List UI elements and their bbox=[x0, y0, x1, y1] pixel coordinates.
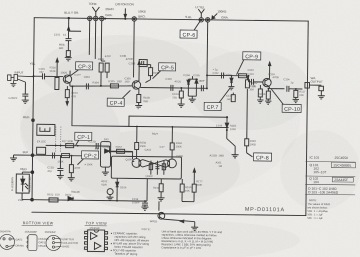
callout CP-1 bbox=[75, 132, 92, 145]
pinout transistor FET bbox=[0, 234, 15, 249]
resistor R126 to ground bbox=[68, 156, 75, 181]
flip-flop box bbox=[111, 156, 181, 179]
relay box bbox=[100, 142, 110, 176]
diode D106 bbox=[228, 76, 234, 90]
resistor R105 bbox=[110, 84, 118, 88]
pinout transistor TO92 bbox=[46, 235, 62, 250]
wire Q3 output run bbox=[140, 87, 206, 90]
node line A end bbox=[226, 116, 228, 118]
resistor R102 with supply arrow bbox=[55, 58, 59, 89]
resistor R152 bbox=[49, 198, 58, 202]
resistor R162 bbox=[170, 127, 174, 150]
ground from BLK bbox=[10, 155, 33, 161]
callout CP-10 bbox=[271, 89, 301, 113]
diode D102 bbox=[68, 197, 73, 201]
callout CP-4 bbox=[107, 90, 130, 107]
notes block left bbox=[110, 231, 149, 256]
resistor R106 / R107 pair bbox=[99, 61, 109, 86]
wire base feed bottom bbox=[147, 179, 194, 212]
transistor Q6 bbox=[166, 150, 177, 168]
capacitor C151 chain from rail bbox=[65, 18, 82, 61]
wire feedback line A bbox=[129, 116, 227, 127]
capacitor C114 bbox=[287, 86, 303, 92]
capacitor C102 bbox=[86, 83, 88, 89]
capacitor C109 bbox=[201, 85, 203, 91]
diode D104 clip bbox=[187, 79, 190, 88]
capacitor C101 bbox=[33, 73, 63, 79]
capacitor C118 bbox=[53, 152, 55, 158]
resistor R111 bbox=[239, 74, 247, 78]
ground clip diodes bbox=[188, 88, 196, 102]
capacitor C100 100pF to ground bbox=[22, 82, 29, 103]
wire CP-1 run bbox=[46, 145, 133, 151]
resistor R116 bbox=[265, 89, 272, 105]
callout CP-5 bbox=[153, 63, 176, 79]
resistor R160 bbox=[180, 179, 184, 202]
dashed link lines bbox=[56, 126, 61, 152]
switch box bbox=[37, 147, 46, 154]
resistor R117 bbox=[293, 89, 300, 103]
transistor Q2 output buffer bbox=[248, 62, 284, 89]
resistor R125 bbox=[62, 154, 70, 158]
notes block right bbox=[161, 229, 222, 250]
potentiometer VR1 DISTORTION bbox=[123, 8, 136, 77]
node PNA bbox=[30, 198, 34, 202]
wire right rail bbox=[306, 21, 308, 215]
resistor R112 bbox=[245, 80, 249, 88]
callout CP-9 bbox=[237, 52, 261, 75]
resistor R159 bbox=[158, 179, 165, 201]
resistor R118 bbox=[231, 93, 235, 102]
diode D105b bbox=[116, 178, 119, 201]
relay EX.LDC box bbox=[37, 124, 55, 135]
callout CP-8 bbox=[253, 153, 271, 162]
wire top rail bbox=[34, 18, 308, 21]
transistor Q1 bbox=[63, 71, 72, 90]
resistor R108 to ground bbox=[178, 88, 185, 107]
capacitor C159 bbox=[141, 201, 148, 210]
callout CP-6 bbox=[180, 21, 200, 38]
parts table bbox=[305, 162, 355, 195]
pinout transistor package2 bbox=[27, 235, 37, 251]
capacitor C120 to ground bbox=[57, 156, 64, 179]
resistor R109 emitter bbox=[135, 94, 142, 108]
diode D105 clip bbox=[188, 76, 198, 88]
wire power run bbox=[22, 200, 147, 202]
wire flip-flop feed bbox=[111, 151, 133, 153]
wire cross coupling bbox=[142, 160, 166, 168]
potentiometer VR3 LEVEL bbox=[197, 9, 217, 88]
value labels extra bbox=[59, 71, 231, 163]
resistor R163 C161 R164 inside box bbox=[149, 161, 166, 175]
wire bottom rail bbox=[32, 212, 306, 215]
connector OUTPUT jack bbox=[305, 83, 325, 99]
note list right bbox=[307, 198, 330, 220]
diode D103 bbox=[105, 149, 110, 153]
callout CP-2 bbox=[77, 151, 98, 165]
resistor R121 bbox=[66, 144, 74, 148]
wire feedback line B bbox=[72, 87, 227, 128]
transistor Q3 bbox=[132, 61, 141, 95]
resistor R119 bbox=[245, 139, 253, 157]
potentiometer VR2 TONE bbox=[87, 7, 104, 61]
wire left rail bbox=[32, 18, 34, 200]
node RED on left rail bbox=[31, 118, 35, 122]
connector INPUT jack bbox=[7, 74, 33, 87]
wire level to output bbox=[207, 74, 248, 77]
callout CP-7 bbox=[204, 87, 230, 111]
transistor Q5 bbox=[132, 149, 143, 167]
capacitor C112 bbox=[222, 73, 224, 79]
node feedback takeoff bbox=[71, 85, 73, 87]
node input on left rail bbox=[33, 75, 35, 77]
callout CP-3 bbox=[71, 62, 93, 76]
resistor R161 bbox=[192, 169, 196, 202]
varistor A102 bbox=[107, 189, 114, 201]
capacitor C106 bbox=[171, 85, 173, 91]
resistor R115 bbox=[257, 85, 264, 103]
resistor R157 bbox=[117, 149, 125, 153]
node RED2 on left rail bbox=[31, 170, 35, 174]
resistor R103 emitter bbox=[65, 90, 69, 106]
wire Q1 emitter to Q3 base bbox=[70, 85, 132, 87]
resistor R158 bbox=[135, 126, 139, 149]
node bbox=[100, 85, 102, 87]
capacitor C120b bbox=[96, 143, 98, 149]
transistor Q7 power switch bbox=[158, 212, 199, 230]
wire right column bbox=[246, 76, 249, 139]
node dots on top rail bbox=[68, 17, 202, 21]
LED indicator box bbox=[16, 172, 32, 200]
resistor R110 collector load bbox=[139, 64, 153, 82]
diode D107 column bbox=[225, 117, 239, 158]
capacitor C183 boxed bbox=[139, 59, 147, 66]
wire CP-2 run bbox=[33, 154, 82, 157]
node BLK on left rail bbox=[31, 153, 35, 157]
